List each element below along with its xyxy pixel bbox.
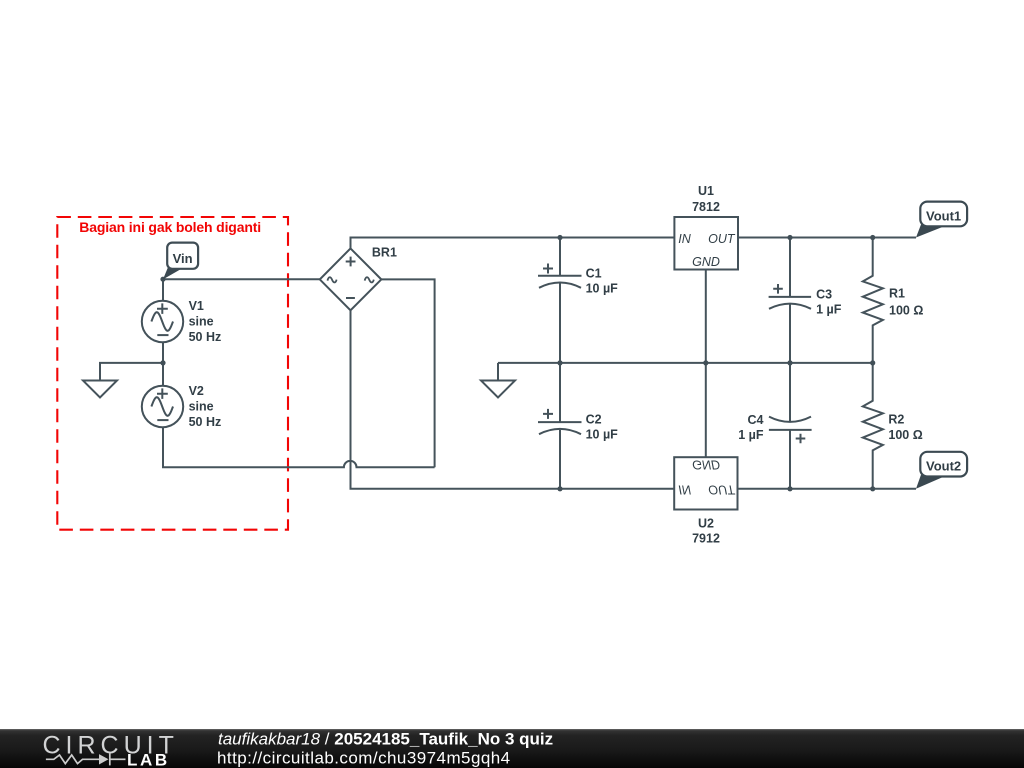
svg-text:C1: C1 [586,267,602,281]
svg-text:V2: V2 [189,384,204,398]
svg-text:C4: C4 [748,413,764,427]
svg-text:R2: R2 [888,412,904,426]
svg-text:U1: U1 [698,184,714,198]
svg-text:Vin: Vin [173,251,193,266]
svg-text:IN: IN [678,232,691,246]
svg-text:R1: R1 [889,286,905,300]
svg-text:http://circuitlab.com/chu3974m: http://circuitlab.com/chu3974m5gqh4 [217,749,511,768]
svg-text:1 µF: 1 µF [816,303,842,317]
svg-text:10 µF: 10 µF [586,282,619,296]
svg-text:BR1: BR1 [372,246,397,260]
svg-text:taufikakbar18 / 20524185_Taufi: taufikakbar18 / 20524185_Taufik_No 3 qui… [218,730,553,749]
svg-text:C2: C2 [586,413,602,427]
svg-text:Vout1: Vout1 [926,208,961,223]
svg-text:IN: IN [678,482,691,496]
svg-text:10 µF: 10 µF [586,428,619,442]
svg-text:LAB: LAB [127,750,170,768]
svg-text:C3: C3 [816,288,832,302]
svg-text:sine: sine [189,314,214,328]
svg-text:Bagian ini gak boleh diganti: Bagian ini gak boleh diganti [79,219,261,235]
svg-text:7812: 7812 [692,200,720,214]
svg-text:sine: sine [189,399,214,413]
svg-text:100 Ω: 100 Ω [888,428,922,442]
svg-text:100 Ω: 100 Ω [889,303,923,317]
svg-text:Vout2: Vout2 [926,459,961,474]
svg-text:50 Hz: 50 Hz [189,415,222,429]
svg-text:7912: 7912 [692,531,720,545]
svg-text:GND: GND [692,457,720,471]
svg-text:1 µF: 1 µF [738,428,764,442]
svg-text:50 Hz: 50 Hz [189,330,222,344]
svg-text:OUT: OUT [708,232,736,246]
svg-text:U2: U2 [698,516,714,530]
svg-text:V1: V1 [189,299,204,313]
svg-text:GND: GND [692,255,720,269]
svg-text:OUT: OUT [708,482,736,496]
